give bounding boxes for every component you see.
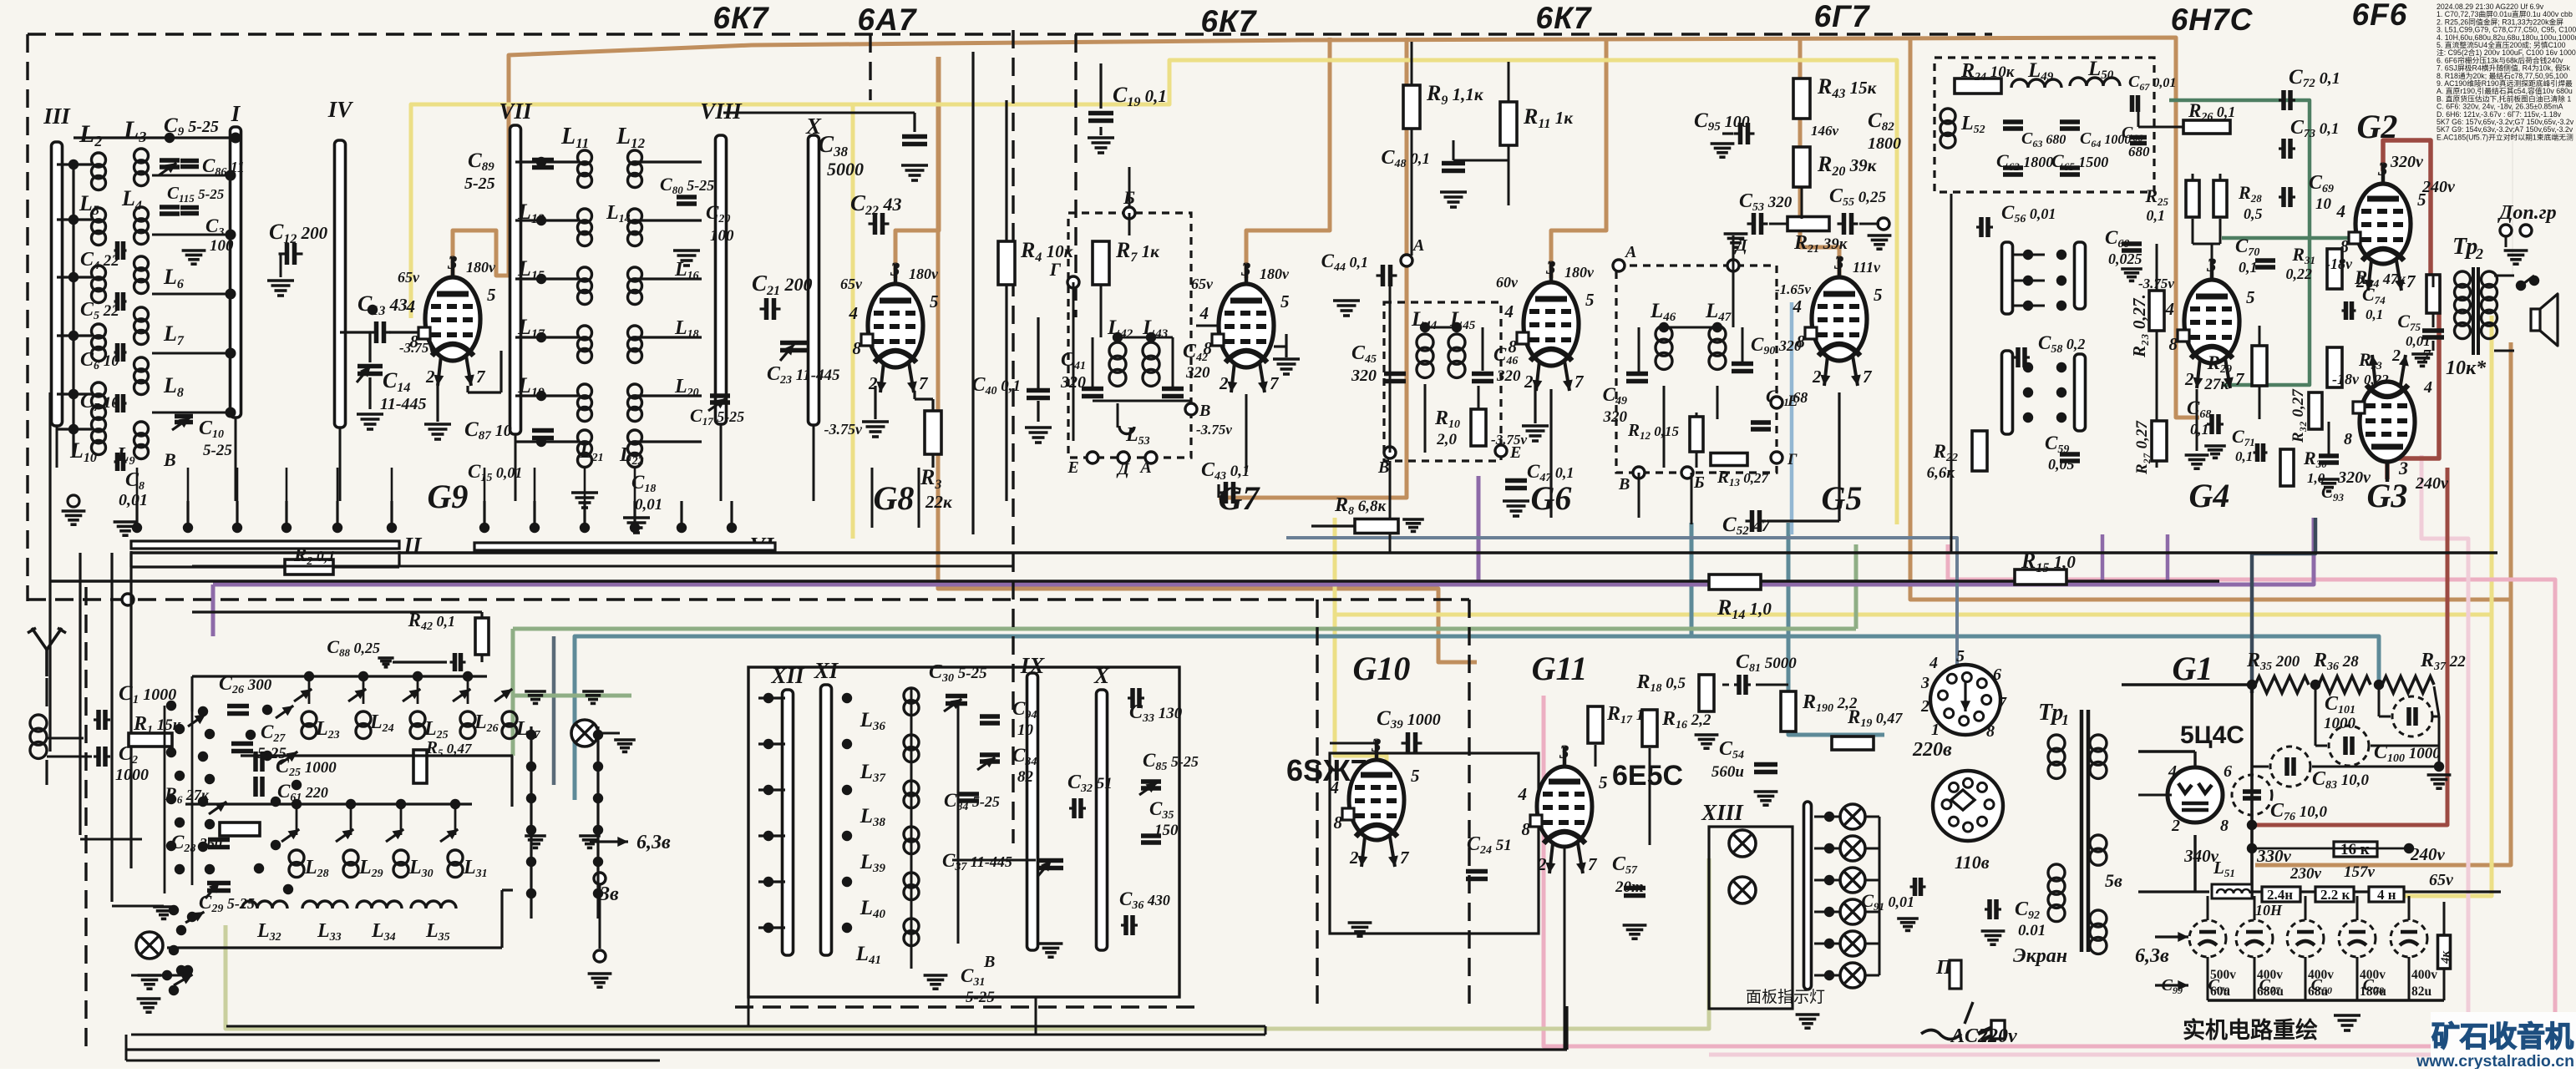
svg-text:320: 320 <box>1185 364 1210 382</box>
svg-text:2: 2 <box>2475 245 2483 262</box>
svg-text:3: 3 <box>2398 458 2408 478</box>
svg-text:4: 4 <box>2423 378 2432 397</box>
svg-text:В: В <box>1199 402 1210 420</box>
svg-text:Е: Е <box>1787 392 1798 410</box>
svg-text:6Н7С: 6Н7С <box>2171 3 2254 37</box>
svg-text:C115 5-25: C115 5-25 <box>167 183 225 205</box>
svg-text:6К7: 6К7 <box>713 1 770 35</box>
svg-text:0,1: 0,1 <box>2190 421 2209 438</box>
svg-text:3: 3 <box>890 259 900 280</box>
svg-text:7: 7 <box>2406 271 2416 291</box>
svg-text:C28 360: C28 360 <box>171 832 222 855</box>
svg-text:面板指示灯: 面板指示灯 <box>1746 988 1825 1006</box>
svg-text:R19 0,47: R19 0,47 <box>1847 706 1903 730</box>
svg-text:G4: G4 <box>2189 477 2230 514</box>
svg-text:C21 200: C21 200 <box>752 271 813 298</box>
svg-text:G5: G5 <box>1822 479 1863 517</box>
svg-text:3: 3 <box>1240 259 1251 280</box>
svg-text:111v: 111v <box>1853 259 1881 276</box>
svg-text:5: 5 <box>487 285 496 305</box>
svg-text:C63 680: C63 680 <box>2021 129 2066 149</box>
svg-text:5-25: 5-25 <box>966 989 995 1006</box>
svg-text:6К7: 6К7 <box>1536 1 1593 35</box>
svg-text:7: 7 <box>919 373 929 393</box>
svg-text:C12 200: C12 200 <box>269 220 328 246</box>
svg-text:Б: Б <box>1693 473 1705 492</box>
svg-text:R34 47к: R34 47к <box>2354 267 2406 291</box>
svg-text:C80 5-25: C80 5-25 <box>660 174 714 196</box>
svg-text:А: А <box>1624 243 1636 261</box>
svg-text:4 н: 4 н <box>2377 887 2396 903</box>
svg-text:C6 10: C6 10 <box>80 349 119 372</box>
svg-text:3: 3 <box>1559 741 1569 762</box>
svg-text:XIII: XIII <box>1701 800 1744 825</box>
svg-text:C48 0,1: C48 0,1 <box>1381 147 1430 170</box>
svg-text:6,3в: 6,3в <box>636 832 671 853</box>
svg-text:www.crystalradio.cn: www.crystalradio.cn <box>2416 1052 2574 1069</box>
svg-text:10: 10 <box>2315 195 2332 213</box>
svg-text:65v: 65v <box>2429 871 2454 889</box>
svg-text:2: 2 <box>1537 854 1547 874</box>
svg-text:0,1: 0,1 <box>2239 259 2258 276</box>
svg-text:7: 7 <box>1863 367 1873 387</box>
svg-text:G11: G11 <box>1532 650 1588 687</box>
svg-text:R24 10к: R24 10к <box>1960 60 2016 84</box>
svg-text:110в: 110в <box>1955 852 1990 873</box>
svg-text:C17 5-25: C17 5-25 <box>690 405 744 428</box>
svg-text:10: 10 <box>1017 721 1034 739</box>
svg-text:-3.75v: -3.75v <box>1491 432 1527 448</box>
svg-text:4: 4 <box>1793 296 1803 316</box>
svg-text:Экран: Экран <box>2013 945 2067 967</box>
svg-text:320v: 320v <box>2337 468 2371 487</box>
svg-text:4: 4 <box>1199 303 1209 323</box>
svg-text:4к: 4к <box>2439 951 2452 965</box>
svg-text:5в: 5в <box>2105 870 2122 891</box>
svg-text:100: 100 <box>710 227 734 245</box>
svg-text:G10: G10 <box>1353 650 1411 687</box>
svg-text:8: 8 <box>2344 430 2352 448</box>
svg-text:0,1: 0,1 <box>2235 448 2253 464</box>
svg-text:65v: 65v <box>1191 276 1214 292</box>
svg-text:C40 0,1: C40 0,1 <box>971 374 1021 397</box>
svg-text:2,0: 2,0 <box>1436 431 1457 448</box>
svg-text:0,01: 0,01 <box>635 496 662 514</box>
svg-text:R12 0,15: R12 0,15 <box>1627 420 1680 442</box>
svg-text:Г: Г <box>1787 451 1798 468</box>
svg-text:7: 7 <box>1998 694 2007 712</box>
svg-text:1,0: 1,0 <box>2307 470 2325 486</box>
svg-text:4: 4 <box>2165 299 2175 319</box>
svg-text:8: 8 <box>1797 332 1806 352</box>
svg-text:G1: G1 <box>2173 650 2213 687</box>
svg-text:8: 8 <box>2220 817 2229 835</box>
svg-text:320: 320 <box>1496 367 1521 385</box>
svg-text:C76 10,0: C76 10,0 <box>2270 800 2328 823</box>
svg-text:实机电路重绘: 实机电路重绘 <box>2183 1017 2318 1043</box>
svg-text:8: 8 <box>1986 722 1995 741</box>
svg-text:220в: 220в <box>1912 739 1952 761</box>
svg-text:C19 0,1: C19 0,1 <box>1113 83 1167 109</box>
svg-text:G3: G3 <box>2367 477 2408 514</box>
svg-text:82: 82 <box>1017 768 1034 786</box>
svg-text:2: 2 <box>1349 848 1359 868</box>
svg-text:180v: 180v <box>1260 266 1290 282</box>
svg-text:2: 2 <box>2171 817 2180 835</box>
svg-text:7: 7 <box>2235 369 2245 389</box>
svg-text:C7 10: C7 10 <box>80 391 119 414</box>
svg-text:0,01: 0,01 <box>2406 333 2431 349</box>
svg-text:27к: 27к <box>2203 376 2229 393</box>
svg-text:3: 3 <box>1545 257 1556 278</box>
svg-text:G9: G9 <box>428 478 469 515</box>
svg-text:6Е5С: 6Е5С <box>1612 760 1683 792</box>
svg-text:11-445: 11-445 <box>380 395 427 413</box>
svg-text:146v: 146v <box>1811 123 1839 139</box>
svg-text:矿石收音机: 矿石收音机 <box>2431 1021 2573 1053</box>
svg-text:8: 8 <box>1334 812 1343 833</box>
svg-text:0,05: 0,05 <box>2048 456 2075 473</box>
svg-text:6К7: 6К7 <box>1201 4 1258 38</box>
svg-text:C88 0,25: C88 0,25 <box>327 636 380 659</box>
svg-text:C83 10,0: C83 10,0 <box>2312 768 2370 792</box>
svg-text:320: 320 <box>1351 367 1377 385</box>
svg-text:8: 8 <box>410 332 419 352</box>
svg-text:6А7: 6А7 <box>858 3 918 37</box>
svg-text:В: В <box>1618 475 1630 493</box>
svg-text:330v: 330v <box>2256 846 2292 866</box>
svg-text:2: 2 <box>2184 369 2194 389</box>
svg-text:4: 4 <box>1518 784 1528 804</box>
svg-text:0,1: 0,1 <box>2366 306 2383 322</box>
svg-text:8: 8 <box>853 338 862 358</box>
svg-text:2: 2 <box>1812 367 1822 387</box>
svg-text:0,5: 0,5 <box>2244 205 2263 222</box>
svg-text:C39 1000: C39 1000 <box>1377 707 1441 731</box>
svg-text:680: 680 <box>2128 144 2150 159</box>
svg-text:2: 2 <box>425 367 435 387</box>
svg-text:6Г7: 6Г7 <box>1814 0 1871 33</box>
svg-text:8: 8 <box>1522 819 1531 839</box>
svg-text:8: 8 <box>1509 337 1518 357</box>
svg-text:-18v: -18v <box>2325 256 2353 272</box>
svg-text:65v: 65v <box>398 269 420 286</box>
svg-text:320v: 320v <box>2390 153 2424 171</box>
svg-text:R13 0,27: R13 0,27 <box>1716 467 1770 488</box>
svg-text:R2 0,1: R2 0,1 <box>293 544 335 568</box>
svg-text:G2: G2 <box>2357 108 2398 145</box>
svg-text:180v: 180v <box>909 266 939 282</box>
svg-text:C73 0,1: C73 0,1 <box>2290 117 2340 140</box>
svg-text:7: 7 <box>1575 372 1585 392</box>
svg-text:6: 6 <box>2224 762 2232 781</box>
svg-text:C37 11-445: C37 11-445 <box>942 850 1012 873</box>
svg-text:22к: 22к <box>925 492 953 512</box>
svg-text:E.AC185(Uf5.7)开立对时以期1束底端无测: E.AC185(Uf5.7)开立对时以期1束底端无测 <box>2437 132 2573 141</box>
svg-text:R4 10к: R4 10к <box>1020 238 1074 265</box>
svg-text:C91 0,01: C91 0,01 <box>1861 890 1914 913</box>
svg-text:2: 2 <box>1920 697 1929 716</box>
svg-text:C5 22: C5 22 <box>80 299 119 322</box>
svg-text:1000: 1000 <box>2324 715 2356 732</box>
svg-text:R7 1к: R7 1к <box>1115 238 1160 265</box>
svg-text:C72 0,1: C72 0,1 <box>2289 66 2340 90</box>
svg-text:2: 2 <box>1219 373 1229 393</box>
svg-text:XI: XI <box>814 658 839 683</box>
svg-text:C81 5000: C81 5000 <box>1736 651 1797 675</box>
svg-text:240v: 240v <box>2410 844 2446 864</box>
svg-text:VII: VII <box>499 99 533 124</box>
svg-text:180v: 180v <box>466 259 496 276</box>
svg-text:5: 5 <box>1599 772 1608 792</box>
svg-text:10Н: 10Н <box>2255 902 2283 919</box>
svg-text:C67 0,01: C67 0,01 <box>2128 73 2176 93</box>
svg-text:C61 220: C61 220 <box>277 781 328 804</box>
svg-text:5-25: 5-25 <box>203 442 232 459</box>
svg-text:VIII: VIII <box>700 99 743 124</box>
svg-text:8: 8 <box>2169 334 2178 354</box>
svg-text:R9 1,1к: R9 1,1к <box>1426 81 1484 108</box>
svg-text:2.2 к: 2.2 к <box>2320 887 2350 903</box>
svg-text:C53 320: C53 320 <box>1739 190 1793 214</box>
svg-text:I: I <box>231 101 241 126</box>
svg-text:C30 5-25: C30 5-25 <box>929 661 987 685</box>
svg-text:1000: 1000 <box>115 766 149 784</box>
svg-text:3: 3 <box>1920 674 1929 692</box>
svg-text:4: 4 <box>849 303 859 323</box>
svg-text:А: А <box>1412 236 1424 255</box>
svg-text:60v: 60v <box>1496 274 1519 291</box>
svg-text:R8 6,8к: R8 6,8к <box>1334 494 1387 518</box>
svg-text:7: 7 <box>476 367 486 387</box>
svg-text:8: 8 <box>2340 236 2350 256</box>
svg-text:10к*: 10к* <box>2446 357 2487 379</box>
svg-text:4: 4 <box>1504 301 1514 321</box>
svg-text:Доп.гр: Доп.гр <box>2497 202 2557 224</box>
svg-text:AC220v: AC220v <box>1950 1025 2017 1047</box>
svg-text:C36 430: C36 430 <box>1119 888 1170 912</box>
svg-text:C43 0,1: C43 0,1 <box>1201 459 1250 483</box>
svg-text:Тр: Тр <box>2452 234 2477 260</box>
svg-text:R₂₃ 0,27.: R₂₃ 0,27. <box>2129 294 2149 358</box>
svg-text:C85 5-25: C85 5-25 <box>1143 750 1199 773</box>
svg-text:Тр: Тр <box>2038 700 2063 726</box>
svg-text:IV: IV <box>327 97 354 122</box>
svg-text:-1.65v: -1.65v <box>1775 281 1811 297</box>
svg-text:3: 3 <box>2377 159 2388 180</box>
svg-text:7: 7 <box>1270 373 1280 393</box>
svg-text:180v: 180v <box>1564 264 1595 281</box>
svg-text:5: 5 <box>2246 287 2255 307</box>
svg-text:2.4н: 2.4н <box>2267 887 2293 903</box>
svg-text:4: 4 <box>406 296 416 316</box>
svg-text:6F6: 6F6 <box>2352 0 2408 32</box>
svg-text:4: 4 <box>2336 201 2346 221</box>
svg-text:R₂₇ 0,27: R₂₇ 0,27 <box>2133 420 2151 475</box>
svg-text:6,3в: 6,3в <box>2135 945 2169 967</box>
svg-text:560u: 560u <box>1711 763 1744 781</box>
svg-text:1: 1 <box>2061 711 2069 728</box>
svg-text:5: 5 <box>1874 285 1883 305</box>
svg-text:R1 15к: R1 15к <box>133 713 182 736</box>
svg-text:C25 1000: C25 1000 <box>276 756 337 779</box>
svg-text:2: 2 <box>1524 372 1534 392</box>
svg-text:82u: 82u <box>2411 984 2432 999</box>
svg-text:7: 7 <box>1588 854 1598 874</box>
svg-text:6: 6 <box>1993 666 2001 684</box>
svg-text:157v: 157v <box>2344 863 2376 881</box>
svg-text:Г: Г <box>1049 259 1062 280</box>
svg-text:R43 15к: R43 15к <box>1817 74 1878 101</box>
svg-text:5: 5 <box>1411 766 1420 786</box>
svg-text:240v: 240v <box>2421 178 2456 196</box>
svg-text:0,01: 0,01 <box>119 491 148 509</box>
svg-text:320: 320 <box>1603 408 1628 426</box>
svg-text:1: 1 <box>1931 721 1940 739</box>
svg-text:C90 320: C90 320 <box>1751 334 1802 357</box>
svg-text:G8: G8 <box>874 479 915 517</box>
svg-text:5000: 5000 <box>827 159 864 180</box>
svg-text:400v: 400v <box>2411 968 2437 982</box>
svg-text:-3.75v: -3.75v <box>1196 422 1232 438</box>
svg-text:Е: Е <box>1067 458 1078 477</box>
svg-text:5: 5 <box>930 291 939 311</box>
svg-text:7: 7 <box>1400 848 1410 868</box>
svg-text:R6 27к: R6 27к <box>164 783 210 806</box>
svg-text:100: 100 <box>210 237 234 255</box>
svg-text:R20 39к: R20 39к <box>1817 152 1878 179</box>
svg-text:C56 0,01: C56 0,01 <box>2001 202 2056 225</box>
svg-text:5: 5 <box>1956 647 1965 666</box>
svg-text:0,22: 0,22 <box>2286 266 2313 282</box>
svg-text:16 к: 16 к <box>2340 841 2370 858</box>
svg-text:R35 200: R35 200 <box>2246 650 2300 673</box>
svg-text:В: В <box>983 953 995 971</box>
svg-text:3: 3 <box>447 252 458 273</box>
svg-text:4: 4 <box>2168 762 2177 781</box>
svg-text:R₃₂ 0,27: R₃₂ 0,27 <box>2289 388 2307 443</box>
svg-text:0.01: 0.01 <box>2018 922 2046 939</box>
svg-text:5-25: 5-25 <box>464 175 495 193</box>
svg-text:240v: 240v <box>2415 474 2449 493</box>
svg-text:0,1: 0,1 <box>2147 207 2166 224</box>
svg-text:65v: 65v <box>840 276 863 292</box>
svg-text:C4 22: C4 22 <box>80 249 119 272</box>
svg-text:-18v: -18v <box>2332 371 2360 387</box>
svg-text:3: 3 <box>1833 252 1844 273</box>
svg-text:B: B <box>163 449 176 470</box>
svg-text:230v: 230v <box>2289 865 2322 883</box>
svg-text:2: 2 <box>2391 347 2401 365</box>
svg-text:5: 5 <box>1585 290 1595 310</box>
svg-text:Д: Д <box>1734 236 1748 255</box>
svg-text:4: 4 <box>1929 654 1938 672</box>
svg-text:C55 0,25: C55 0,25 <box>1829 185 1887 209</box>
svg-text:1800: 1800 <box>1868 134 1901 153</box>
svg-text:III: III <box>43 104 71 129</box>
svg-text:-3.75v: -3.75v <box>824 421 863 438</box>
svg-text:C23 11-445: C23 11-445 <box>767 363 840 387</box>
svg-text:В: В <box>1377 458 1389 477</box>
svg-text:8: 8 <box>1204 338 1213 358</box>
svg-text:0,025: 0,025 <box>2108 251 2142 267</box>
svg-text:5Ц4С: 5Ц4С <box>2180 721 2244 749</box>
svg-text:5: 5 <box>1280 291 1290 311</box>
